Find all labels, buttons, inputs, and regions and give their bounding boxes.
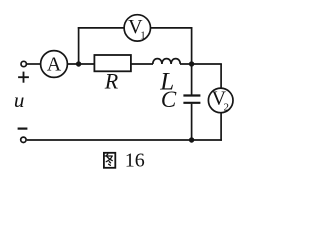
node junction bottom dot	[189, 137, 194, 142]
caption hanzi tu (figure) drawn as path	[104, 153, 115, 168]
capacitor C bottom plate	[183, 102, 200, 104]
wire V1 to top-right corner	[150, 27, 192, 29]
svg-text:C: C	[161, 87, 177, 112]
svg-text:A: A	[47, 54, 62, 76]
svg-text:16: 16	[125, 149, 145, 171]
terminal bottom-left (-)	[21, 137, 26, 142]
voltmeter V1 circle	[124, 15, 150, 41]
terminal top-left (+)	[21, 61, 26, 66]
wire resistor to inductor	[131, 63, 153, 65]
wire node B down to capacitor	[191, 64, 193, 95]
wire top to V1	[78, 27, 124, 29]
wire bottom return	[27, 139, 222, 141]
wire V2 branch bottom	[220, 113, 222, 141]
ammeter U-A circle	[41, 51, 68, 78]
resistor R body	[94, 55, 130, 71]
inductor L coil	[153, 59, 180, 64]
wire ammeter to junction A	[67, 63, 94, 65]
wire terminal to ammeter	[27, 63, 41, 65]
voltmeter V2 circle	[208, 88, 233, 113]
wire inductor to node B and right corner	[180, 63, 222, 65]
svg-text:1: 1	[140, 29, 146, 41]
node junction A dot	[76, 61, 81, 66]
svg-text:u: u	[14, 88, 25, 112]
wire junction A up riser	[78, 27, 80, 65]
wire capacitor down to bottom node	[191, 104, 193, 140]
wire V2 branch top	[220, 64, 222, 88]
svg-text:2: 2	[224, 101, 230, 113]
node junction B dot	[189, 61, 194, 66]
wire riser down to node B	[191, 27, 193, 64]
svg-text:R: R	[104, 69, 119, 94]
minus sign of source	[18, 128, 28, 130]
plus sign of source	[18, 72, 29, 83]
capacitor C top plate	[183, 94, 200, 96]
